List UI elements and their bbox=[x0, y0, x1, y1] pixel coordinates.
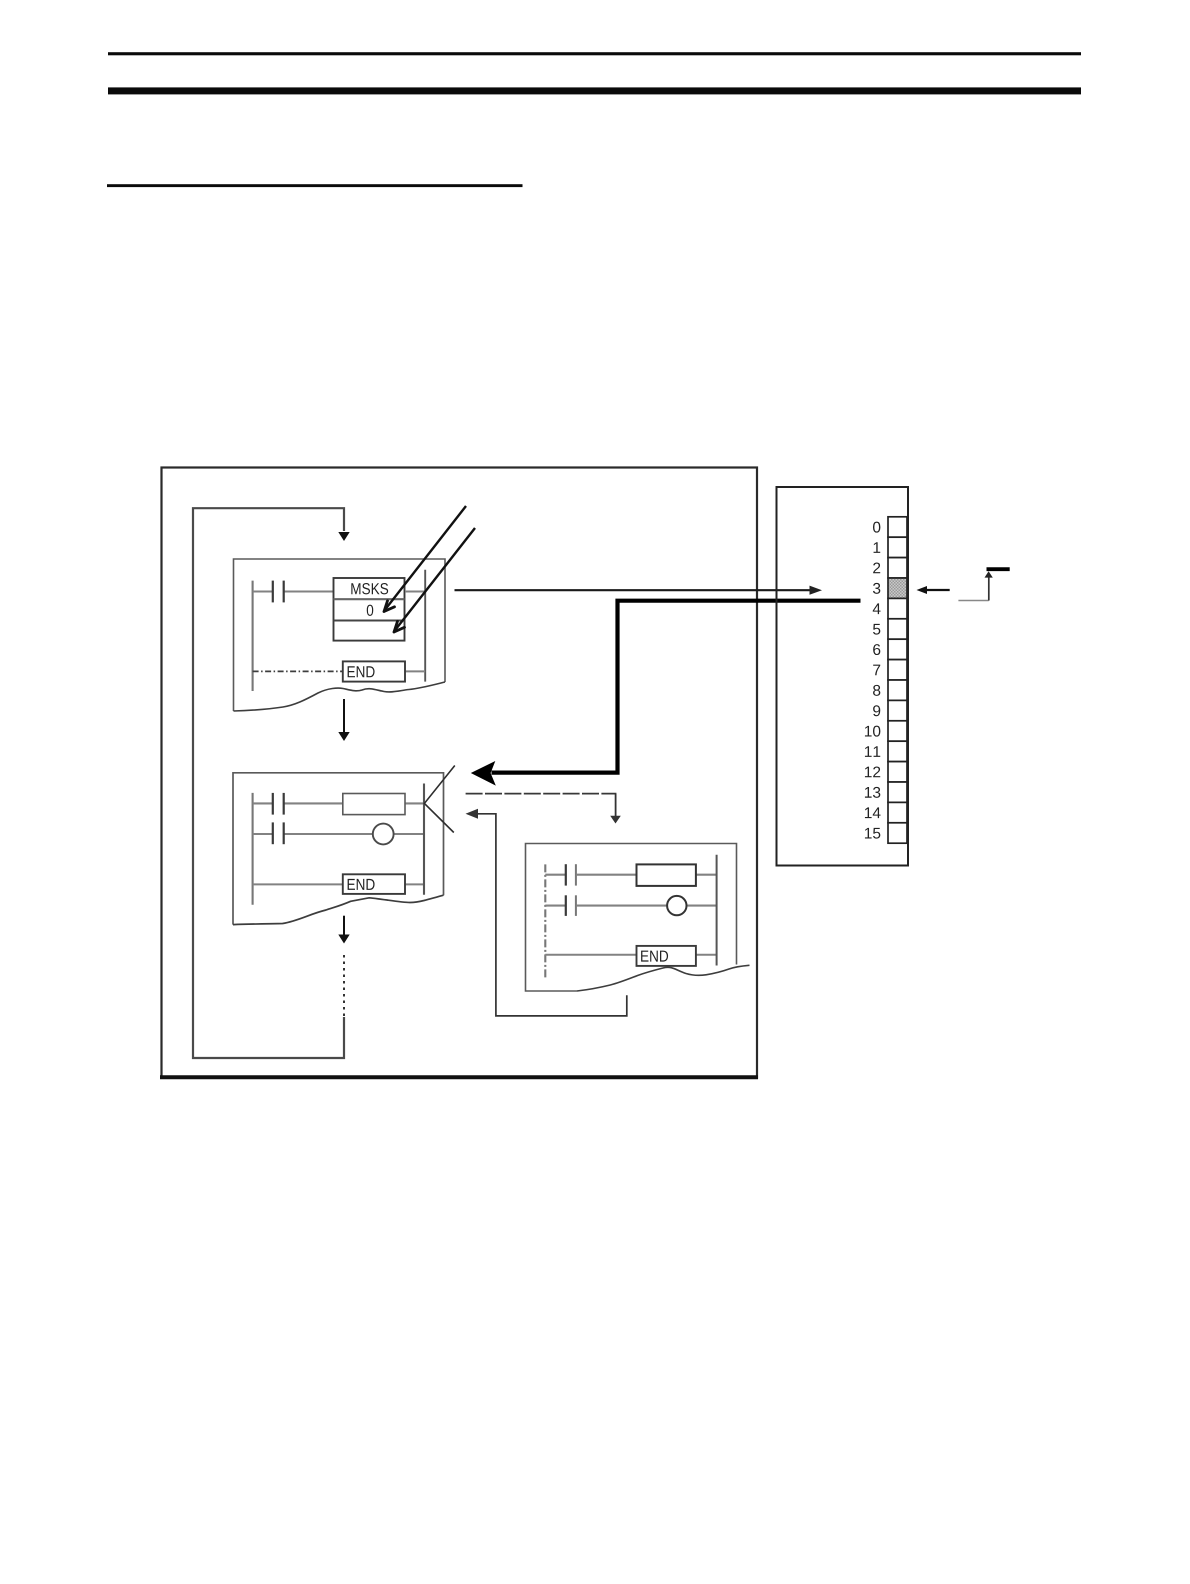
header bar bbox=[108, 87, 1081, 94]
interrupt task block (torn window) bbox=[526, 844, 750, 992]
scan loop arrowhead bbox=[338, 532, 349, 541]
block1 END rung wire bbox=[253, 670, 426, 672]
interrupt number labels bbox=[865, 522, 881, 839]
wire to interrupt task bbox=[466, 794, 621, 824]
main program block 1 (torn window) bbox=[234, 559, 446, 711]
block2 END box bbox=[343, 874, 405, 894]
task END label bbox=[641, 951, 668, 962]
block2 left bus bar bbox=[252, 793, 254, 905]
block2 rung 2 wire bbox=[253, 833, 424, 835]
block1 END box bbox=[343, 661, 405, 681]
task right bus bar bbox=[716, 855, 718, 966]
block1 rung 1 right wire bbox=[405, 590, 425, 592]
task rung1 contact bbox=[566, 864, 576, 885]
block2 END rung wire bbox=[253, 883, 424, 885]
input signal arrow bbox=[917, 586, 950, 594]
annotation arrow to operand row bbox=[384, 506, 466, 612]
block2 rung 1 wire bbox=[253, 802, 424, 804]
block2 output coil bbox=[373, 824, 394, 845]
block2 rung1 contact bbox=[273, 793, 284, 815]
interrupt break chevron bbox=[424, 766, 454, 833]
interrupt vector table frame bbox=[777, 487, 909, 866]
task instruction box bbox=[637, 864, 696, 886]
pointer wire to interrupt table bbox=[455, 586, 823, 595]
main program block 2 (torn window) bbox=[233, 773, 444, 925]
heading underline bbox=[107, 184, 523, 187]
task rung 1 wire bbox=[545, 874, 716, 876]
block1 left bus bar bbox=[252, 581, 254, 691]
annotation arrow to third row bbox=[394, 528, 475, 632]
block1 right bus bar bbox=[424, 570, 426, 682]
block2 rung2 contact bbox=[273, 822, 284, 844]
flow arrow block1 to block2 bbox=[338, 699, 349, 741]
block1 rung 1 wire bbox=[253, 590, 334, 592]
block2 right bus bar bbox=[423, 784, 425, 895]
cyclic scan loop wire bbox=[193, 508, 344, 1058]
task rung 2 wire bbox=[545, 905, 716, 907]
interrupt call arrowhead bbox=[471, 761, 496, 786]
interrupt call wire (thick) bbox=[492, 601, 861, 773]
task END rung wire bbox=[545, 954, 716, 956]
flow arrow below block2 bbox=[338, 916, 349, 944]
MSKS instruction box bbox=[334, 578, 405, 641]
rising edge arrowhead bbox=[985, 571, 993, 577]
task rung2 contact bbox=[566, 895, 576, 916]
MSKS label bbox=[351, 583, 388, 594]
block1 END label bbox=[348, 666, 375, 677]
block2 instruction box bbox=[343, 794, 405, 815]
operand 0 label bbox=[367, 605, 374, 616]
task output coil bbox=[667, 896, 686, 915]
block2 END label bbox=[348, 879, 375, 890]
program frame bbox=[160, 468, 758, 1078]
block1 input contact bbox=[273, 581, 284, 603]
rising edge waveform low level bbox=[958, 600, 988, 602]
interrupt vector cells bbox=[888, 517, 907, 843]
rising edge high level bbox=[987, 567, 1010, 571]
return wire from interrupt task bbox=[466, 809, 627, 1016]
scan loop dotted wire bbox=[343, 955, 345, 1017]
task END box bbox=[637, 946, 696, 966]
rising edge riser bbox=[988, 577, 990, 601]
task left bus bar bbox=[544, 864, 546, 977]
top rule bbox=[108, 52, 1081, 55]
